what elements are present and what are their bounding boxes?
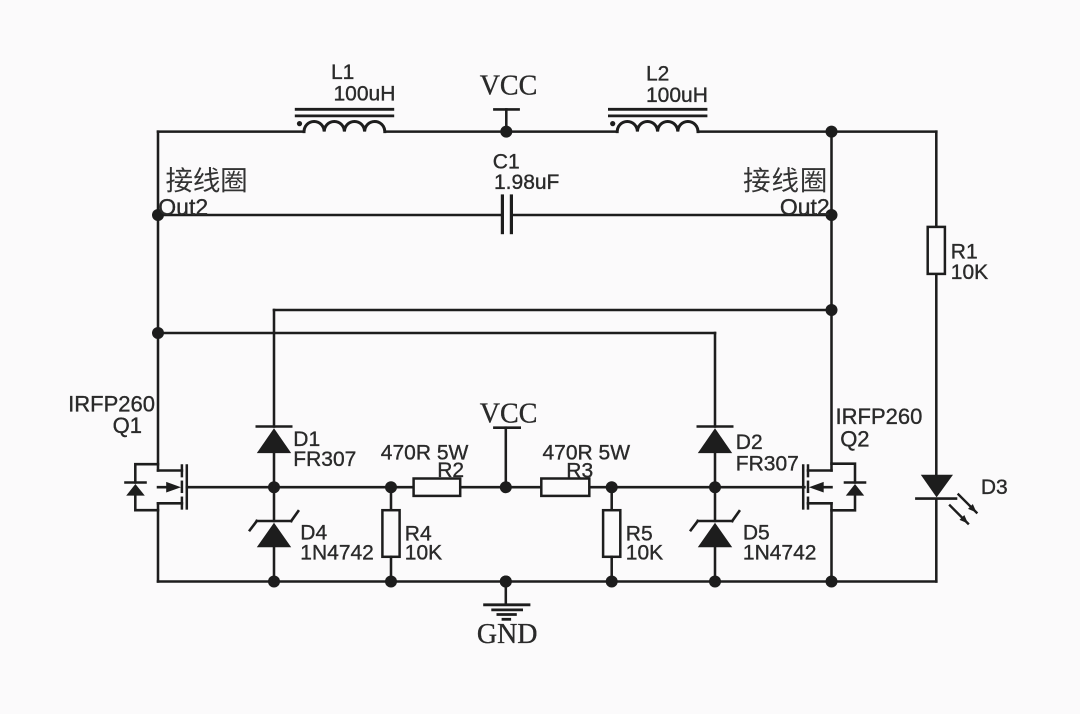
svg-text:D2: D2 xyxy=(736,431,763,454)
svg-text:GND: GND xyxy=(477,619,538,650)
svg-text:R2: R2 xyxy=(437,459,464,482)
svg-text:1N4742: 1N4742 xyxy=(743,541,817,564)
svg-text:D3: D3 xyxy=(981,476,1008,499)
svg-text:100uH: 100uH xyxy=(334,83,396,106)
svg-text:Q2: Q2 xyxy=(840,427,869,452)
svg-text:VCC: VCC xyxy=(480,399,538,430)
svg-text:L1: L1 xyxy=(331,61,354,84)
svg-text:FR307: FR307 xyxy=(293,448,356,471)
svg-text:R3: R3 xyxy=(566,460,593,483)
svg-text:VCC: VCC xyxy=(480,70,538,101)
svg-text:10K: 10K xyxy=(405,541,442,564)
svg-text:1N4742: 1N4742 xyxy=(300,541,374,564)
svg-text:Q1: Q1 xyxy=(113,413,142,438)
svg-text:Out2: Out2 xyxy=(158,194,208,220)
svg-text:FR307: FR307 xyxy=(736,452,799,475)
svg-text:1.98uF: 1.98uF xyxy=(494,171,559,194)
svg-text:Out2: Out2 xyxy=(780,194,830,220)
svg-text:L2: L2 xyxy=(646,63,669,86)
svg-text:10K: 10K xyxy=(626,541,663,564)
svg-text:10K: 10K xyxy=(951,261,988,284)
svg-text:IRFP260: IRFP260 xyxy=(836,404,923,429)
svg-text:100uH: 100uH xyxy=(646,84,708,107)
